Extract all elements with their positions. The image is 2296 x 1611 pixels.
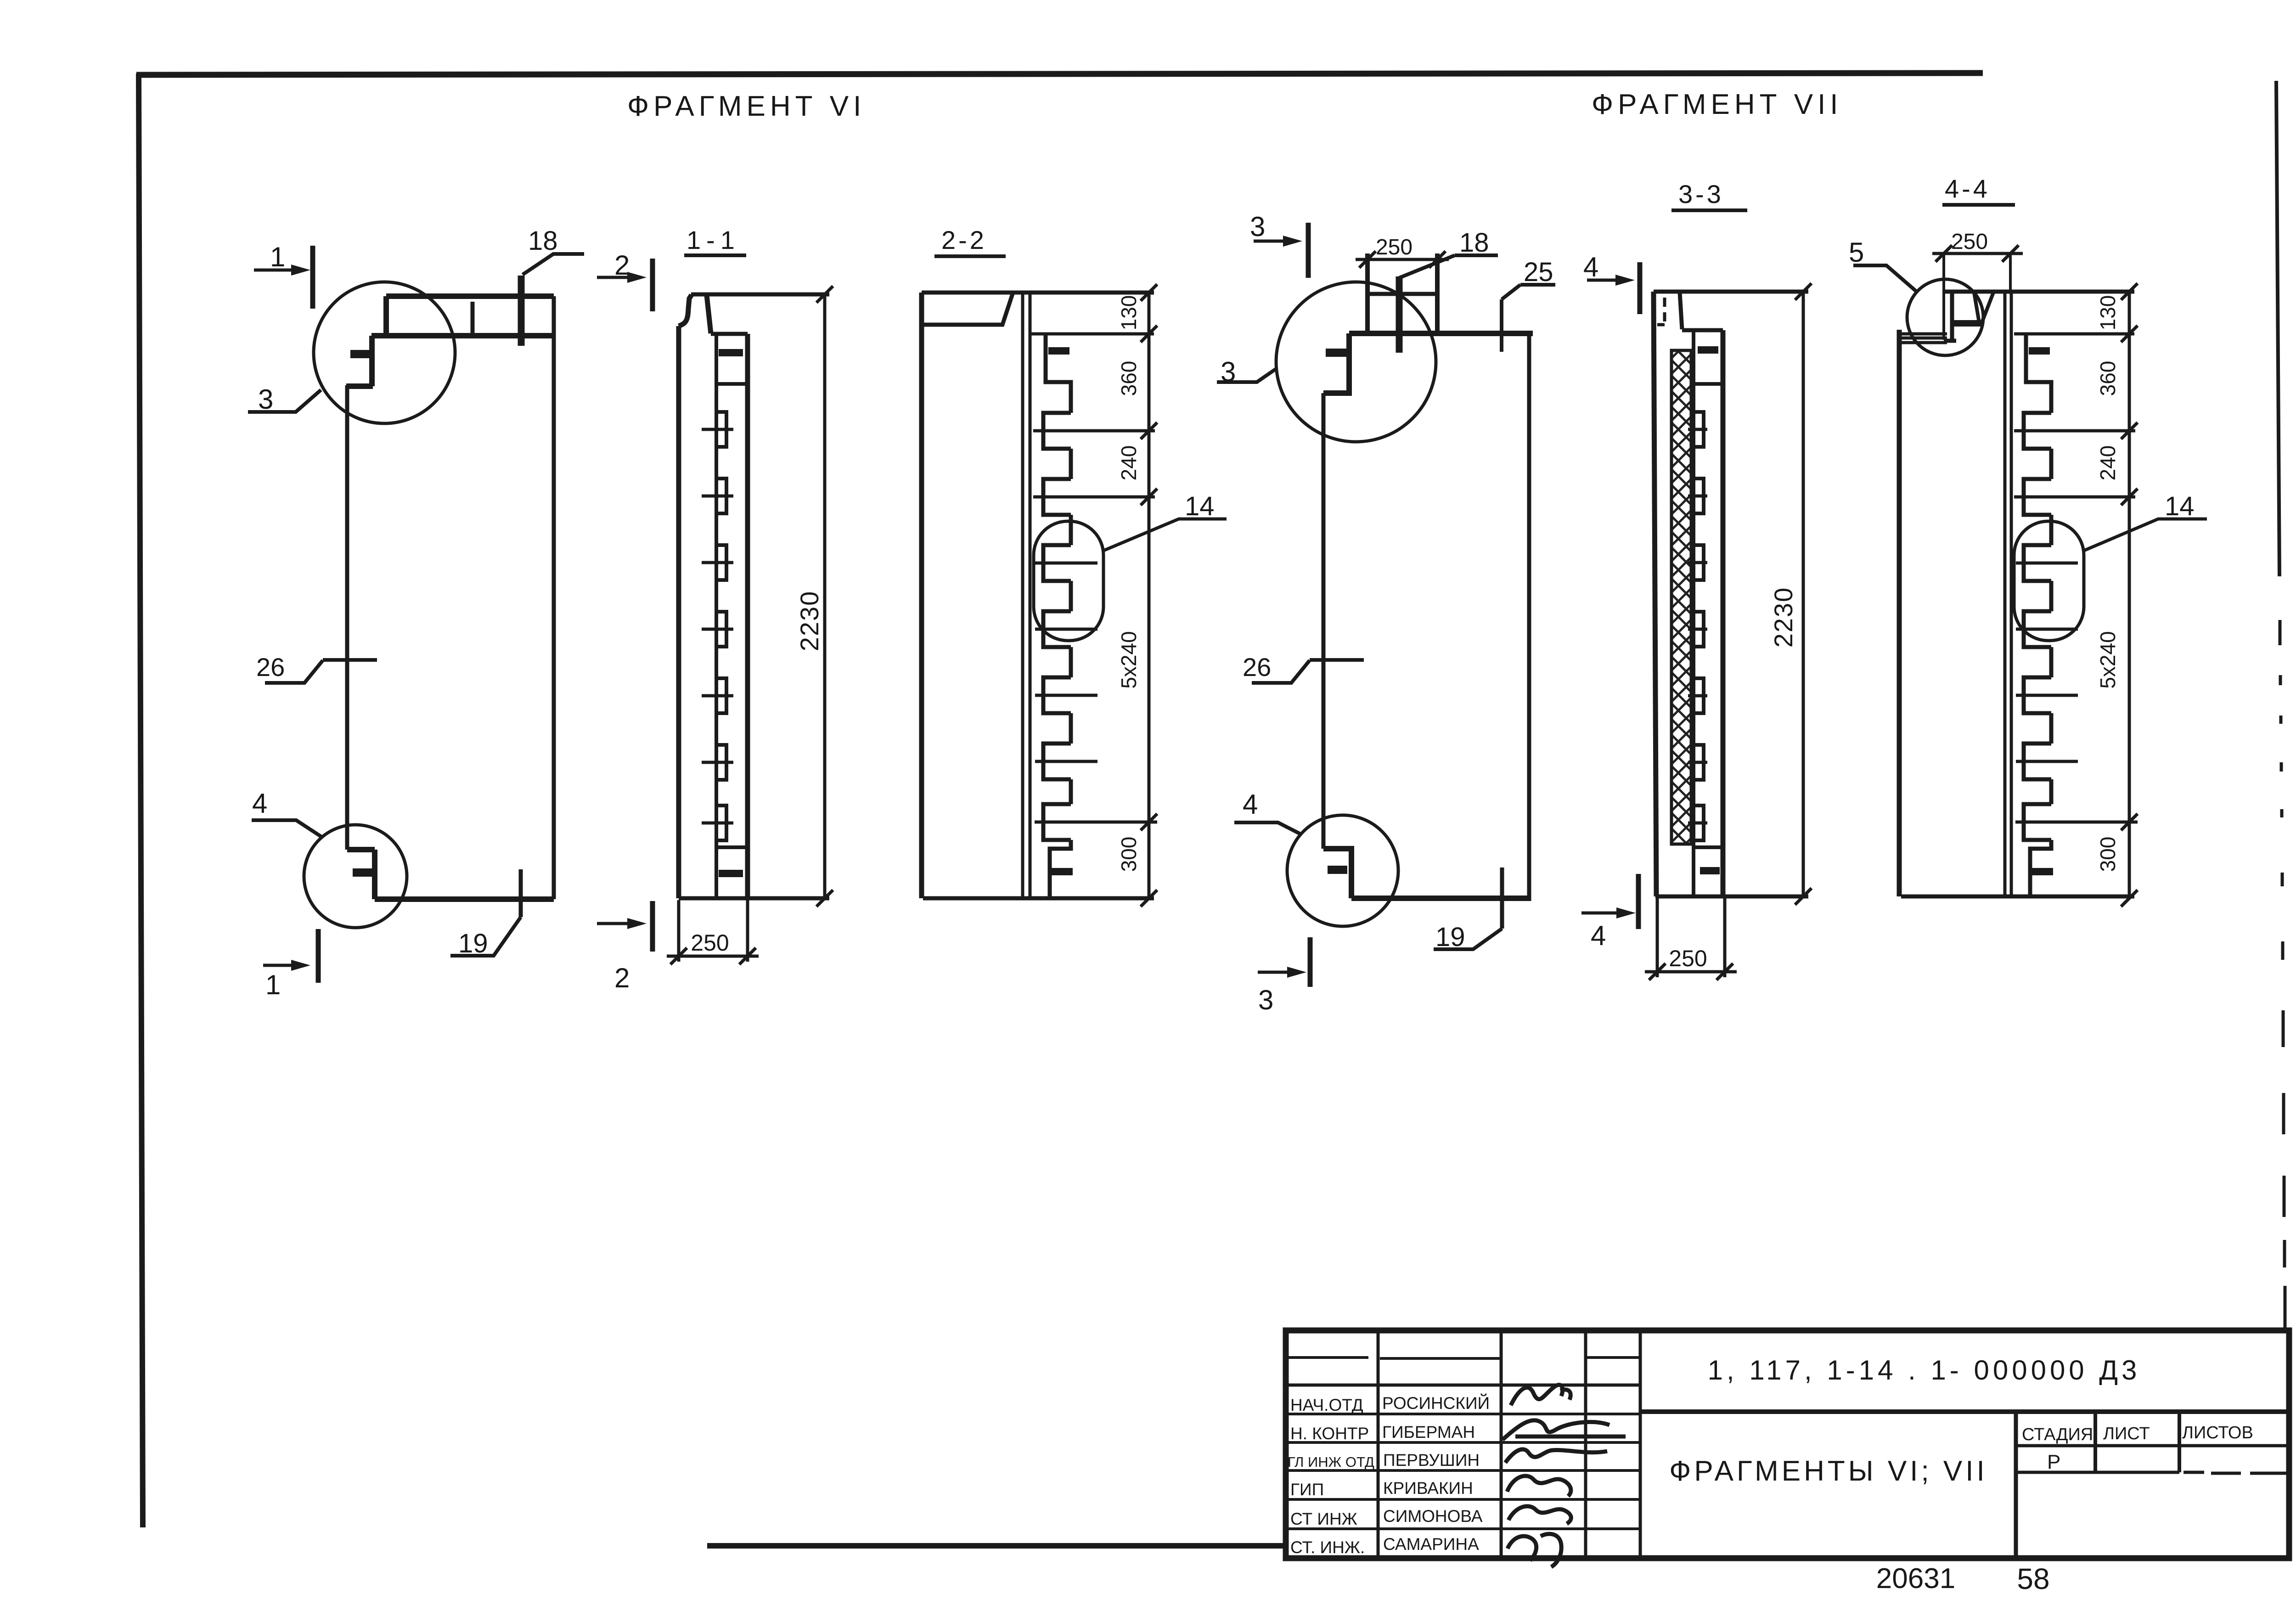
- svg-text:2230: 2230: [1769, 587, 1798, 648]
- svg-text:14: 14: [2165, 491, 2195, 521]
- svg-text:18: 18: [1459, 228, 1489, 258]
- svg-text:ГЛ ИНЖ ОТД: ГЛ ИНЖ ОТД: [1288, 1454, 1374, 1470]
- svg-text:2230: 2230: [795, 591, 824, 652]
- svg-text:4: 4: [1583, 252, 1598, 282]
- svg-text:РОСИНСКИЙ: РОСИНСКИЙ: [1382, 1393, 1490, 1413]
- svg-text:3-3: 3-3: [1678, 180, 1724, 208]
- svg-text:4: 4: [1591, 920, 1606, 951]
- svg-text:3: 3: [1258, 985, 1273, 1015]
- svg-text:ГИБЕРМАН: ГИБЕРМАН: [1382, 1423, 1475, 1442]
- svg-text:240: 240: [2096, 445, 2120, 481]
- svg-text:НАЧ.ОТД: НАЧ.ОТД: [1290, 1396, 1363, 1414]
- svg-text:58: 58: [2017, 1562, 2049, 1595]
- svg-text:СТ. ИНЖ.: СТ. ИНЖ.: [1290, 1538, 1365, 1557]
- svg-text:ФРАГМЕНТ VI: ФРАГМЕНТ VI: [627, 90, 866, 122]
- svg-text:СТАДИЯ: СТАДИЯ: [2022, 1425, 2093, 1444]
- svg-text:300: 300: [1117, 837, 1141, 872]
- svg-text:4: 4: [1243, 789, 1258, 820]
- svg-text:250: 250: [1376, 235, 1412, 259]
- svg-text:4-4: 4-4: [1945, 174, 1990, 203]
- svg-text:25: 25: [1524, 257, 1553, 287]
- svg-text:26: 26: [256, 653, 285, 682]
- svg-text:130: 130: [1117, 295, 1141, 331]
- svg-text:360: 360: [2096, 361, 2120, 396]
- svg-text:Н. КОНТР: Н. КОНТР: [1290, 1424, 1369, 1443]
- svg-text:КРИВАКИН: КРИВАКИН: [1383, 1479, 1473, 1498]
- svg-text:Р: Р: [2047, 1451, 2060, 1473]
- svg-text:ФРАГМЕНТЫ VI; VII: ФРАГМЕНТЫ VI; VII: [1669, 1455, 1987, 1487]
- svg-text:5x240: 5x240: [2096, 631, 2120, 688]
- svg-text:ЛИСТОВ: ЛИСТОВ: [2182, 1423, 2253, 1442]
- svg-text:1, 117, 1-14 . 1- 000000 Д3: 1, 117, 1-14 . 1- 000000 Д3: [1708, 1355, 2141, 1386]
- svg-text:1: 1: [265, 969, 281, 1000]
- svg-text:300: 300: [2096, 837, 2120, 872]
- svg-text:4: 4: [252, 788, 267, 819]
- svg-text:5x240: 5x240: [1117, 631, 1141, 688]
- svg-text:240: 240: [1117, 445, 1141, 481]
- svg-text:20631: 20631: [1876, 1563, 1955, 1594]
- svg-text:360: 360: [1117, 361, 1141, 396]
- svg-text:14: 14: [1185, 491, 1215, 521]
- svg-text:18: 18: [528, 226, 558, 256]
- svg-text:250: 250: [1951, 230, 1988, 254]
- svg-text:СИМОНОВА: СИМОНОВА: [1383, 1507, 1483, 1526]
- svg-text:СТ ИНЖ: СТ ИНЖ: [1290, 1510, 1357, 1528]
- svg-text:250: 250: [691, 930, 729, 956]
- svg-text:5: 5: [1849, 237, 1864, 268]
- svg-text:ГИП: ГИП: [1290, 1480, 1324, 1499]
- svg-text:2: 2: [614, 963, 630, 993]
- svg-text:3: 3: [258, 384, 273, 415]
- svg-text:1: 1: [270, 242, 285, 272]
- svg-text:2-2: 2-2: [941, 225, 987, 254]
- svg-text:ЛИСТ: ЛИСТ: [2103, 1424, 2150, 1443]
- svg-text:1-1: 1-1: [687, 225, 740, 254]
- svg-text:САМАРИНА: САМАРИНА: [1383, 1535, 1479, 1554]
- svg-text:26: 26: [1243, 653, 1271, 682]
- svg-text:250: 250: [1669, 946, 1707, 971]
- svg-text:130: 130: [2096, 295, 2120, 331]
- svg-text:ПЕРВУШИН: ПЕРВУШИН: [1383, 1451, 1480, 1470]
- svg-text:3: 3: [1250, 211, 1265, 242]
- svg-text:ФРАГМЕНТ VII: ФРАГМЕНТ VII: [1592, 89, 1843, 120]
